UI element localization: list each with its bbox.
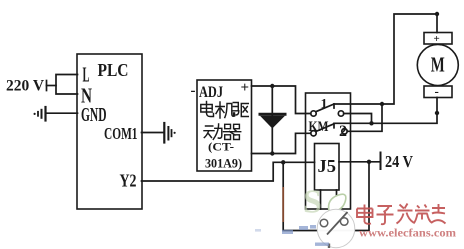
wire J5 right to 24V [339,161,381,163]
wire + rail top [252,86,311,114]
wire COM1 to ground G2 [142,132,165,134]
svg-text:-: - [435,84,439,99]
svg-text:M: M [431,52,445,76]
node motor bottom [435,111,439,115]
watermark badge circle [317,209,355,247]
badge dot A [320,219,328,227]
PLC box U1 [77,54,142,209]
contact KM-2 [311,131,316,136]
svg-text:-: - [191,83,196,99]
wire 220V to fork [47,85,57,87]
char 电 [201,102,214,117]
label 2 [339,123,347,140]
label 301A9) [205,156,242,171]
label PLC [98,60,129,80]
svg-text:COM1: COM1 [104,124,138,143]
node Y2 branch [281,160,285,164]
node diode bottom [270,151,274,155]
motor M circle [417,45,458,86]
svg-text:PLC: PLC [98,60,129,80]
relay module box [306,93,351,209]
svg-text:ADJ: ADJ [199,84,223,101]
svg-text:+: + [241,80,250,96]
badge tick [328,244,330,249]
node top corner [435,12,439,16]
wire contact2 arm to motor bottom [334,98,437,124]
svg-text:KM: KM [309,119,329,135]
wire contact1 arm to top rail of motor [334,14,437,104]
svg-text:www.elecfans.com: www.elecfans.com [359,228,456,240]
contact KM-1 [311,111,316,116]
label (CT- [208,140,234,154]
label KM [309,119,329,135]
pin L [83,63,90,87]
label 电机驱 (drawn strokes) [201,102,249,119]
fork bracket to L and N [56,75,78,95]
node diode top [270,84,274,88]
terminal bar of 220V [46,81,48,91]
svg-text:Y2: Y2 [120,171,137,191]
relay coil box J5 [315,144,340,191]
J5 lower terminals [321,190,337,209]
label 1 [321,97,328,112]
badge diagonal [327,212,348,235]
node 24V branch [367,160,371,164]
label 动器 (drawn strokes) [204,124,241,140]
node arm junction [380,102,384,106]
wire - rail bottom [252,133,311,153]
ground G1 [46,112,78,114]
char 驱 [233,103,249,117]
svg-text:220 V: 220 V [6,78,44,95]
svg-text:2: 2 [339,123,347,140]
pin GND [81,104,107,126]
watermark red title 电子发烧友 (stroke clusters) [357,204,446,225]
watermark leaf [329,194,346,211]
svg-text:(CT-: (CT- [208,140,234,154]
char 器 [224,124,241,139]
label 24 V [385,152,414,171]
watermark blue text fragments [255,225,329,246]
terminal bar 24V [380,153,382,170]
wire branch down [283,162,369,231]
char 动 [204,124,222,139]
watermark green S logo [303,184,322,221]
svg-text:+: + [434,33,440,45]
svg-text:S: S [303,184,322,221]
node jog junction [369,121,373,125]
pin Y2 [120,171,137,191]
wire Y2 to J5 [142,162,315,181]
char 机 [216,102,235,118]
motor M brush bottom [424,86,452,98]
diode D1 [271,86,273,154]
label ADJ [199,84,223,101]
wire junction down to contact2 right [347,104,382,131]
svg-text:301A9): 301A9) [205,156,242,171]
terminal - [191,83,196,99]
terminal + [241,80,250,96]
pin COM1 [104,124,138,143]
watermark tint on wire [282,187,284,222]
badge dot B [340,218,348,226]
pin N [81,84,92,108]
motor driver box U2 (ADJ) [197,80,252,171]
source label 220 V [6,78,44,95]
ground G2 [163,123,165,143]
svg-text:GND: GND [81,104,107,126]
svg-text:1: 1 [321,97,328,112]
svg-text:24 V: 24 V [385,152,414,171]
motor M brush top [424,33,452,45]
svg-text:J5: J5 [318,156,337,176]
wire contact1 NO terminal jog [344,114,372,124]
